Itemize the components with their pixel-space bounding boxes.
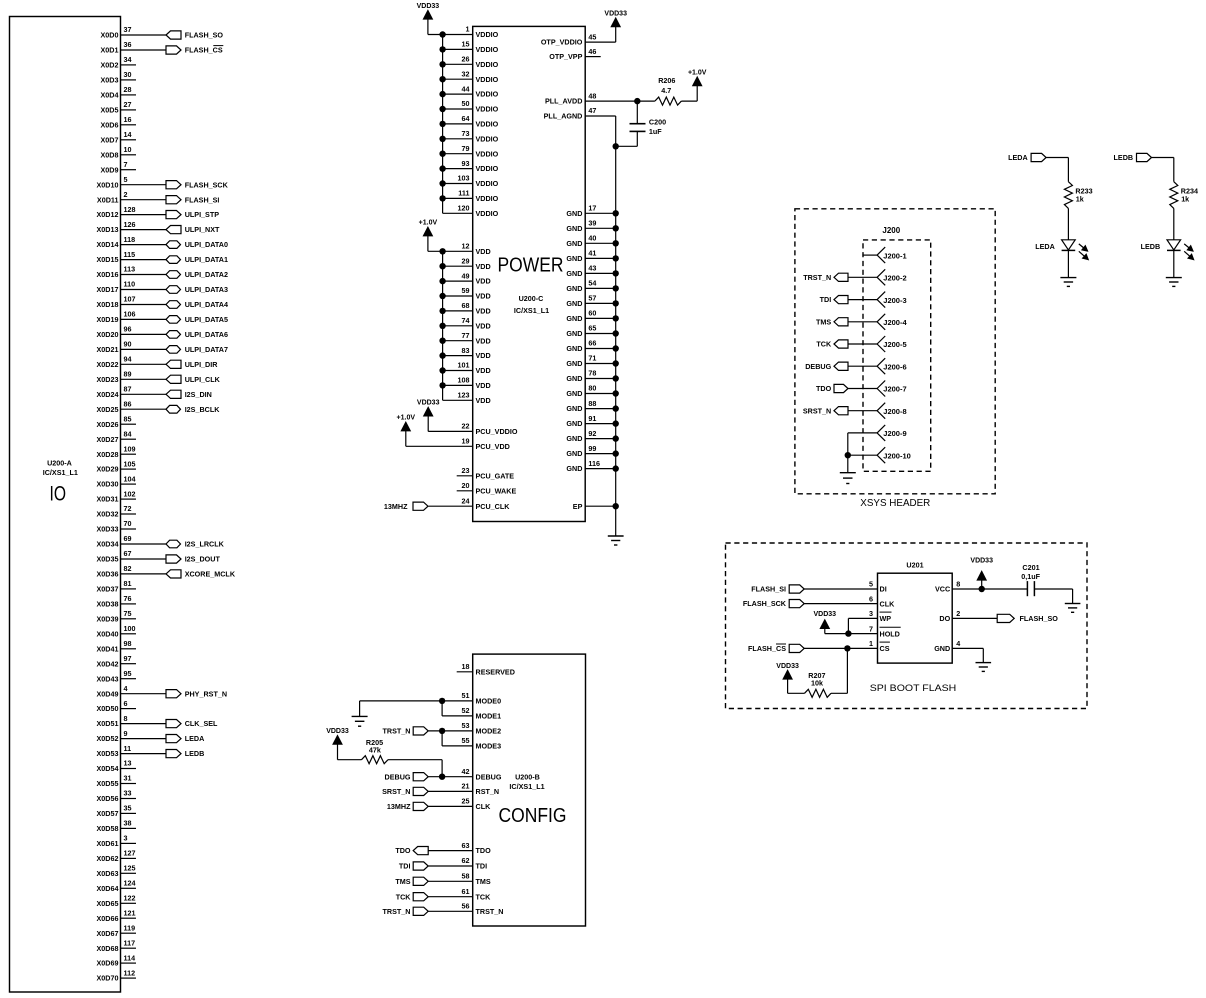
svg-text:VDD: VDD [476, 262, 491, 271]
svg-text:71: 71 [588, 354, 596, 363]
svg-text:RESERVED: RESERVED [476, 667, 515, 676]
svg-text:PCU_WAKE: PCU_WAKE [476, 486, 517, 495]
svg-text:X0D27: X0D27 [97, 435, 119, 444]
svg-text:58: 58 [462, 872, 470, 881]
svg-text:CS: CS [880, 644, 890, 653]
svg-text:VDD: VDD [476, 366, 491, 375]
svg-text:+1.0V: +1.0V [397, 415, 416, 422]
svg-text:GND: GND [566, 359, 582, 368]
svg-text:43: 43 [588, 264, 596, 273]
svg-text:111: 111 [458, 189, 469, 198]
svg-text:MODE1: MODE1 [476, 712, 502, 721]
svg-text:68: 68 [462, 301, 470, 310]
svg-text:GND: GND [566, 374, 582, 383]
svg-text:VDDIO: VDDIO [476, 75, 499, 84]
svg-text:J200-10: J200-10 [883, 451, 911, 460]
svg-text:12: 12 [462, 242, 470, 251]
svg-text:61: 61 [462, 887, 470, 896]
svg-text:42: 42 [462, 767, 470, 776]
svg-text:X0D33: X0D33 [97, 525, 119, 534]
svg-text:50: 50 [462, 99, 470, 108]
svg-text:VDD33: VDD33 [776, 663, 799, 670]
svg-text:GND: GND [566, 269, 582, 278]
svg-text:C201: C201 [1022, 563, 1039, 572]
svg-text:VDD: VDD [476, 292, 491, 301]
svg-text:LEDB: LEDB [185, 749, 205, 758]
svg-text:26: 26 [462, 55, 470, 64]
svg-text:125: 125 [124, 864, 136, 873]
svg-text:X0D22: X0D22 [97, 360, 119, 369]
svg-text:3: 3 [869, 609, 873, 618]
svg-text:X0D53: X0D53 [97, 749, 119, 758]
svg-text:TMS: TMS [395, 877, 410, 886]
svg-text:116: 116 [588, 459, 600, 468]
svg-text:TDO: TDO [395, 846, 411, 855]
svg-text:FLASH_SO: FLASH_SO [185, 31, 224, 40]
svg-text:VCC: VCC [935, 585, 950, 594]
svg-text:FLASH_SO: FLASH_SO [1020, 614, 1059, 623]
svg-text:VDDIO: VDDIO [476, 194, 499, 203]
svg-text:I2S_LRCLK: I2S_LRCLK [185, 540, 225, 549]
svg-text:16: 16 [124, 115, 132, 124]
svg-text:13MHZ: 13MHZ [387, 802, 411, 811]
svg-text:97: 97 [124, 654, 132, 663]
svg-text:ULPI_DATA4: ULPI_DATA4 [185, 300, 228, 309]
svg-text:TRST_N: TRST_N [803, 273, 831, 282]
svg-text:93: 93 [462, 159, 470, 168]
svg-text:X0D32: X0D32 [97, 510, 119, 519]
svg-text:X0D0: X0D0 [101, 31, 119, 40]
svg-text:TDO: TDO [816, 384, 832, 393]
svg-text:FLASH_SCK: FLASH_SCK [743, 599, 787, 608]
svg-text:TMS: TMS [476, 877, 491, 886]
svg-text:TRST_N: TRST_N [476, 907, 504, 916]
svg-text:92: 92 [588, 429, 596, 438]
svg-text:X0D38: X0D38 [97, 600, 119, 609]
svg-text:31: 31 [124, 774, 132, 783]
svg-text:VDD33: VDD33 [326, 728, 349, 735]
svg-text:VDD: VDD [476, 277, 491, 286]
svg-text:GND: GND [566, 239, 582, 248]
svg-text:117: 117 [124, 938, 136, 947]
svg-text:X0D2: X0D2 [101, 61, 119, 70]
svg-text:U200-A: U200-A [47, 459, 72, 468]
svg-text:X0D37: X0D37 [97, 585, 119, 594]
svg-text:112: 112 [124, 968, 136, 977]
svg-text:1k: 1k [1076, 195, 1084, 204]
svg-text:OTP_VPP: OTP_VPP [549, 52, 582, 61]
svg-text:X0D23: X0D23 [97, 375, 119, 384]
svg-text:X0D28: X0D28 [97, 450, 119, 459]
svg-text:VDD33: VDD33 [970, 558, 993, 565]
svg-text:MODE3: MODE3 [476, 742, 502, 751]
svg-text:ULPI_DATA5: ULPI_DATA5 [185, 315, 228, 324]
svg-text:J200-5: J200-5 [883, 340, 906, 349]
svg-text:ULPI_DATA1: ULPI_DATA1 [185, 255, 228, 264]
svg-text:X0D69: X0D69 [97, 959, 119, 968]
svg-text:4.7: 4.7 [661, 86, 671, 95]
svg-text:X0D55: X0D55 [97, 779, 119, 788]
svg-text:TDO: TDO [476, 846, 492, 855]
svg-text:X0D68: X0D68 [97, 944, 119, 953]
svg-text:ULPI_DATA7: ULPI_DATA7 [185, 345, 228, 354]
svg-text:J200-4: J200-4 [883, 318, 907, 327]
svg-text:56: 56 [462, 902, 470, 911]
svg-text:113: 113 [124, 265, 136, 274]
svg-text:4: 4 [124, 684, 128, 693]
svg-text:POWER: POWER [498, 255, 564, 277]
svg-text:62: 62 [462, 856, 470, 865]
svg-text:PCU_VDD: PCU_VDD [476, 442, 510, 451]
svg-text:99: 99 [588, 444, 596, 453]
svg-text:17: 17 [588, 204, 596, 213]
svg-text:ULPI_DATA0: ULPI_DATA0 [185, 240, 228, 249]
svg-text:GND: GND [566, 299, 582, 308]
svg-text:91: 91 [588, 414, 596, 423]
svg-text:87: 87 [124, 385, 132, 394]
svg-text:88: 88 [588, 399, 596, 408]
svg-text:34: 34 [124, 55, 132, 64]
svg-text:45: 45 [588, 32, 596, 41]
svg-text:TRST_N: TRST_N [383, 727, 411, 736]
svg-text:+1.0V: +1.0V [688, 69, 707, 76]
svg-text:GND: GND [566, 329, 582, 338]
svg-text:TRST_N: TRST_N [383, 907, 411, 916]
svg-text:114: 114 [124, 953, 136, 962]
svg-text:VDDIO: VDDIO [476, 179, 499, 188]
svg-text:79: 79 [462, 144, 470, 153]
svg-text:VDD: VDD [476, 396, 491, 405]
svg-text:39: 39 [588, 219, 596, 228]
svg-text:X0D26: X0D26 [97, 420, 119, 429]
svg-text:54: 54 [588, 279, 596, 288]
svg-text:67: 67 [124, 549, 132, 558]
svg-text:J200-1: J200-1 [883, 251, 906, 260]
svg-text:100: 100 [124, 624, 136, 633]
svg-text:102: 102 [124, 489, 136, 498]
svg-text:LEDB: LEDB [1141, 242, 1161, 251]
svg-text:X0D58: X0D58 [97, 824, 119, 833]
svg-text:73: 73 [462, 129, 470, 138]
svg-text:VDD33: VDD33 [417, 400, 440, 407]
svg-text:X0D6: X0D6 [101, 120, 119, 129]
svg-text:X0D14: X0D14 [97, 240, 119, 249]
svg-text:X0D50: X0D50 [97, 704, 119, 713]
svg-text:X0D9: X0D9 [101, 165, 119, 174]
svg-text:47k: 47k [369, 746, 381, 755]
svg-text:GND: GND [566, 419, 582, 428]
svg-text:ULPI_DIR: ULPI_DIR [185, 360, 219, 369]
svg-text:TDI: TDI [476, 862, 488, 871]
svg-text:SPI BOOT FLASH: SPI BOOT FLASH [870, 683, 957, 693]
svg-text:122: 122 [124, 894, 136, 903]
svg-text:40: 40 [588, 234, 596, 243]
svg-text:3: 3 [124, 834, 128, 843]
svg-text:65: 65 [588, 324, 596, 333]
svg-text:X0D7: X0D7 [101, 135, 119, 144]
svg-text:109: 109 [124, 444, 136, 453]
svg-text:VDDIO: VDDIO [476, 105, 499, 114]
svg-text:X0D63: X0D63 [97, 869, 119, 878]
svg-text:75: 75 [124, 609, 132, 618]
svg-text:104: 104 [124, 474, 136, 483]
svg-text:94: 94 [124, 355, 132, 364]
svg-text:XSYS HEADER: XSYS HEADER [860, 498, 930, 509]
svg-text:HOLD: HOLD [880, 629, 900, 638]
svg-text:XCORE_MCLK: XCORE_MCLK [185, 570, 236, 579]
svg-text:U201: U201 [906, 561, 923, 570]
svg-text:36: 36 [124, 40, 132, 49]
svg-text:VDD: VDD [476, 336, 491, 345]
svg-text:101: 101 [458, 361, 470, 370]
svg-text:33: 33 [124, 789, 132, 798]
svg-text:DEBUG: DEBUG [385, 772, 411, 781]
svg-text:WP: WP [880, 614, 892, 623]
svg-text:70: 70 [124, 519, 132, 528]
svg-text:PCU_CLK: PCU_CLK [476, 502, 511, 511]
svg-text:37: 37 [124, 25, 132, 34]
svg-text:13: 13 [124, 759, 132, 768]
svg-text:47: 47 [588, 106, 596, 115]
svg-text:SRST_N: SRST_N [803, 406, 831, 415]
svg-text:1: 1 [466, 25, 470, 34]
svg-text:ULPI_DATA3: ULPI_DATA3 [185, 285, 228, 294]
svg-text:I2S_BCLK: I2S_BCLK [185, 405, 221, 414]
svg-text:MODE0: MODE0 [476, 697, 502, 706]
svg-text:VDD33: VDD33 [814, 611, 837, 618]
svg-text:J200-7: J200-7 [883, 385, 906, 394]
svg-text:5: 5 [124, 175, 128, 184]
svg-text:74: 74 [462, 316, 470, 325]
svg-text:7: 7 [124, 160, 128, 169]
svg-text:X0D54: X0D54 [97, 764, 119, 773]
svg-text:X0D5: X0D5 [101, 106, 119, 115]
svg-text:IO: IO [50, 483, 67, 506]
svg-text:78: 78 [588, 369, 596, 378]
svg-text:35: 35 [124, 804, 132, 813]
svg-text:5: 5 [869, 580, 873, 589]
svg-text:LEDA: LEDA [185, 734, 205, 743]
svg-text:DEBUG: DEBUG [805, 362, 831, 371]
svg-text:7: 7 [869, 624, 873, 633]
svg-text:ULPI_NXT: ULPI_NXT [185, 225, 220, 234]
svg-text:VDD33: VDD33 [604, 10, 627, 17]
svg-text:72: 72 [124, 504, 132, 513]
svg-text:80: 80 [588, 384, 596, 393]
svg-text:ULPI_CLK: ULPI_CLK [185, 375, 221, 384]
svg-text:X0D62: X0D62 [97, 854, 119, 863]
svg-text:118: 118 [124, 235, 136, 244]
svg-text:J200-6: J200-6 [883, 362, 906, 371]
svg-text:52: 52 [462, 706, 470, 715]
svg-text:X0D21: X0D21 [97, 345, 119, 354]
svg-text:18: 18 [462, 662, 470, 671]
svg-text:U200-B: U200-B [515, 772, 540, 781]
svg-text:TDI: TDI [399, 862, 411, 871]
svg-text:ULPI_STP: ULPI_STP [185, 210, 220, 219]
svg-text:X0D24: X0D24 [97, 390, 119, 399]
svg-text:X0D49: X0D49 [97, 689, 119, 698]
svg-text:2: 2 [124, 190, 128, 199]
svg-text:49: 49 [462, 271, 470, 280]
svg-text:69: 69 [124, 534, 132, 543]
svg-text:IC/XS1_L1: IC/XS1_L1 [514, 306, 549, 315]
svg-text:103: 103 [458, 174, 470, 183]
svg-text:X0D34: X0D34 [97, 540, 119, 549]
svg-text:EP: EP [573, 502, 583, 511]
svg-text:DEBUG: DEBUG [476, 772, 502, 781]
svg-text:GND: GND [566, 344, 582, 353]
svg-text:X0D25: X0D25 [97, 405, 119, 414]
svg-text:GND: GND [566, 254, 582, 263]
svg-text:48: 48 [588, 91, 596, 100]
svg-text:105: 105 [124, 459, 136, 468]
svg-text:76: 76 [124, 594, 132, 603]
svg-text:9: 9 [124, 729, 128, 738]
svg-text:FLASH_SCK: FLASH_SCK [185, 180, 229, 189]
svg-text:21: 21 [462, 782, 470, 791]
svg-text:X0D70: X0D70 [97, 974, 119, 983]
svg-text:X0D19: X0D19 [97, 315, 119, 324]
svg-text:127: 127 [124, 849, 136, 858]
svg-text:51: 51 [462, 691, 470, 700]
svg-text:X0D61: X0D61 [97, 839, 119, 848]
svg-text:110: 110 [124, 280, 136, 289]
svg-text:84: 84 [124, 429, 132, 438]
svg-text:96: 96 [124, 325, 132, 334]
svg-text:VDD: VDD [476, 351, 491, 360]
svg-text:X0D12: X0D12 [97, 210, 119, 219]
svg-text:13MHZ: 13MHZ [384, 502, 408, 511]
svg-text:11: 11 [124, 744, 132, 753]
svg-text:1k: 1k [1181, 195, 1189, 204]
svg-text:10: 10 [124, 145, 132, 154]
svg-text:X0D56: X0D56 [97, 794, 119, 803]
svg-text:77: 77 [462, 331, 470, 340]
svg-text:FLASH_SI: FLASH_SI [751, 585, 786, 594]
svg-text:120: 120 [458, 204, 470, 213]
svg-text:86: 86 [124, 399, 132, 408]
svg-text:J200-3: J200-3 [883, 296, 906, 305]
svg-text:J200-8: J200-8 [883, 407, 906, 416]
svg-text:DI: DI [880, 585, 887, 594]
svg-text:41: 41 [588, 249, 596, 258]
svg-text:98: 98 [124, 639, 132, 648]
svg-text:U200-C: U200-C [519, 294, 544, 303]
svg-text:VDDIO: VDDIO [476, 45, 499, 54]
svg-text:119: 119 [124, 923, 136, 932]
svg-text:GND: GND [566, 434, 582, 443]
svg-text:30: 30 [124, 70, 132, 79]
svg-text:X0D8: X0D8 [101, 150, 119, 159]
svg-text:14: 14 [124, 130, 132, 139]
svg-text:CONFIG: CONFIG [499, 805, 567, 827]
svg-text:89: 89 [124, 370, 132, 379]
svg-text:GND: GND [566, 209, 582, 218]
svg-text:VDDIO: VDDIO [476, 149, 499, 158]
svg-text:82: 82 [124, 564, 132, 573]
svg-text:PCU_VDDIO: PCU_VDDIO [476, 427, 518, 436]
svg-text:GND: GND [566, 314, 582, 323]
svg-text:DO: DO [939, 614, 950, 623]
svg-text:121: 121 [124, 908, 136, 917]
svg-text:RST_N: RST_N [476, 787, 500, 796]
svg-text:PLL_AVDD: PLL_AVDD [545, 97, 582, 106]
svg-text:59: 59 [462, 286, 470, 295]
svg-text:TDI: TDI [820, 295, 832, 304]
svg-text:X0D13: X0D13 [97, 225, 119, 234]
svg-text:128: 128 [124, 205, 136, 214]
svg-text:X0D17: X0D17 [97, 285, 119, 294]
svg-text:63: 63 [462, 841, 470, 850]
svg-text:GND: GND [566, 389, 582, 398]
svg-text:X0D18: X0D18 [97, 300, 119, 309]
svg-text:60: 60 [588, 309, 596, 318]
svg-text:X0D41: X0D41 [97, 644, 119, 653]
svg-text:TCK: TCK [396, 892, 412, 901]
svg-text:64: 64 [462, 114, 470, 123]
svg-text:SRST_N: SRST_N [382, 787, 410, 796]
svg-text:29: 29 [462, 256, 470, 265]
svg-text:TCK: TCK [816, 340, 832, 349]
svg-text:X0D67: X0D67 [97, 929, 119, 938]
svg-text:57: 57 [588, 294, 596, 303]
svg-text:VDDIO: VDDIO [476, 209, 499, 218]
svg-text:CLK: CLK [476, 802, 492, 811]
svg-text:X0D52: X0D52 [97, 734, 119, 743]
svg-text:90: 90 [124, 340, 132, 349]
svg-text:8: 8 [956, 580, 960, 589]
svg-text:106: 106 [124, 310, 136, 319]
svg-text:1: 1 [869, 639, 873, 648]
svg-text:GND: GND [566, 224, 582, 233]
svg-text:19: 19 [462, 437, 470, 446]
svg-text:J200-9: J200-9 [883, 429, 906, 438]
svg-text:20: 20 [462, 481, 470, 490]
svg-text:22: 22 [462, 422, 470, 431]
svg-text:X0D64: X0D64 [97, 884, 119, 893]
svg-text:PHY_RST_N: PHY_RST_N [185, 689, 227, 698]
svg-text:VDDIO: VDDIO [476, 90, 499, 99]
svg-text:X0D39: X0D39 [97, 614, 119, 623]
svg-text:0,1uF: 0,1uF [1021, 572, 1040, 581]
svg-text:X0D20: X0D20 [97, 330, 119, 339]
svg-text:VDD: VDD [476, 381, 491, 390]
svg-text:53: 53 [462, 721, 470, 730]
svg-text:55: 55 [462, 736, 470, 745]
svg-text:VDDIO: VDDIO [476, 134, 499, 143]
svg-text:6: 6 [124, 699, 128, 708]
svg-text:VDDIO: VDDIO [476, 30, 499, 39]
svg-text:115: 115 [124, 250, 136, 259]
svg-text:108: 108 [458, 376, 470, 385]
svg-text:LEDB: LEDB [1114, 153, 1134, 162]
svg-text:TMS: TMS [816, 317, 831, 326]
svg-text:VDD: VDD [476, 307, 491, 316]
svg-text:TCK: TCK [476, 892, 492, 901]
svg-text:46: 46 [588, 47, 596, 56]
svg-text:X0D15: X0D15 [97, 255, 119, 264]
svg-text:10k: 10k [811, 679, 823, 688]
svg-text:PCU_GATE: PCU_GATE [476, 471, 515, 480]
svg-text:23: 23 [462, 466, 470, 475]
svg-text:FLASH_CS: FLASH_CS [748, 644, 786, 653]
svg-text:X0D16: X0D16 [97, 270, 119, 279]
svg-text:VDDIO: VDDIO [476, 164, 499, 173]
svg-text:LEDA: LEDA [1008, 153, 1028, 162]
svg-text:8: 8 [124, 714, 128, 723]
svg-text:X0D36: X0D36 [97, 570, 119, 579]
